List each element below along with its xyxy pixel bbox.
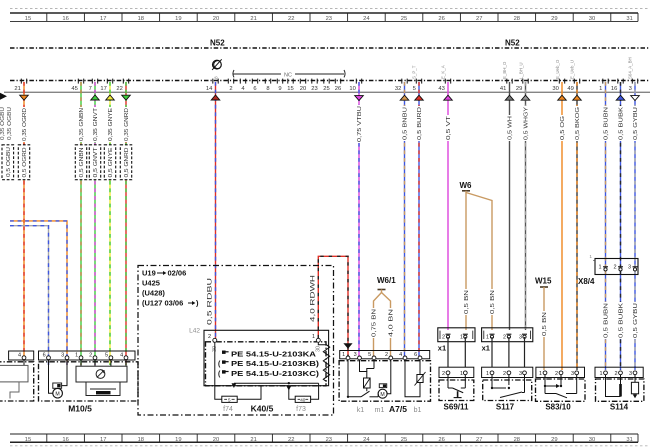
svg-text:1: 1: [539, 371, 542, 377]
svg-text:23: 23: [311, 86, 317, 92]
svg-text:14: 14: [206, 86, 213, 92]
svg-text:PE 54.15-U-2103KB): PE 54.15-U-2103KB): [231, 361, 319, 368]
svg-text:2: 2: [555, 371, 558, 377]
svg-text:M: M: [380, 392, 384, 398]
svg-text:L42: L42: [189, 328, 200, 335]
M10/5 internals: control module: [76, 360, 127, 396]
wire 0,5 BUBK pin16 to X8/4 pin2: [616, 82, 625, 267]
svg-text:2: 2: [208, 334, 211, 340]
switch S117: [482, 367, 533, 411]
tiny pin function labels: [412, 57, 633, 79]
svg-text:0,35 OGBU: 0,35 OGBU: [7, 107, 13, 140]
wire 0,5 GYBU X8/4 pin3 to S114 pin3: [632, 271, 639, 370]
svg-text:0,5 GNYE: 0,5 GNYE: [108, 147, 114, 177]
svg-text:31: 31: [626, 437, 632, 443]
svg-text:2: 2: [503, 334, 506, 340]
wire 0,75 VTBU pin10 to A7/5 pin3: [355, 82, 364, 356]
svg-text:K40/5: K40/5: [251, 404, 274, 414]
wire fuse f73 to pin1 branch: [311, 383, 319, 399]
svg-text:x1: x1: [438, 344, 446, 353]
svg-text:19: 19: [175, 437, 181, 443]
svg-text:0,5 GNVT: 0,5 GNVT: [93, 147, 99, 178]
relay coil zigzag: [318, 342, 329, 381]
wire 4,0 RDWH K40/5 pin1 to A7/5 pin1: [310, 256, 352, 356]
svg-text:17: 17: [100, 16, 106, 22]
label M10/5: [68, 404, 92, 414]
svg-text:1: 1: [598, 264, 601, 270]
label K40/5: [251, 404, 274, 414]
svg-text:17: 17: [100, 86, 106, 92]
connector X8/4: [578, 254, 638, 286]
option frame U19/U425/U428/U127: [138, 266, 334, 416]
fuse f73: [295, 396, 310, 413]
wire fuse f74 to relay box: [237, 386, 261, 400]
S69/11 link wires: [448, 337, 465, 367]
svg-text:0,35 GNVT: 0,35 GNVT: [93, 107, 99, 141]
svg-text:2: 2: [503, 371, 506, 377]
svg-text:21: 21: [14, 86, 20, 92]
svg-text:1: 1: [312, 334, 315, 340]
svg-text:27: 27: [476, 437, 482, 443]
svg-text:0,5 BKOG: 0,5 BKOG: [575, 107, 581, 140]
K40/5 pin 2: [208, 334, 217, 342]
svg-text:1: 1: [599, 86, 602, 92]
svg-text:32: 32: [395, 86, 401, 92]
svg-text:30: 30: [315, 346, 321, 352]
svg-text:15: 15: [287, 86, 293, 92]
svg-text:0,5 BN: 0,5 BN: [464, 290, 470, 314]
wire 0,5 BURD pin5 to A7/5 pin6: [415, 82, 424, 356]
wire 0,35 OGRD pin21 to M10/4 pin4: [18, 82, 29, 356]
phantom wire label 0,35 OGBU (cut): [0, 107, 13, 140]
svg-text:m1: m1: [375, 407, 385, 414]
svg-text:40: 40: [300, 398, 306, 403]
svg-text:W15: W15: [535, 277, 552, 286]
svg-text:6: 6: [414, 352, 417, 358]
svg-text:N52: N52: [210, 39, 225, 48]
svg-text:0,5 BUBK: 0,5 BUBK: [618, 107, 624, 140]
svg-text:8: 8: [214, 76, 220, 79]
svg-text:30: 30: [589, 437, 595, 443]
wire OGBU horizontal to M10/5 pin3: [10, 221, 67, 365]
NC pin numbers: [228, 79, 341, 92]
label N52 (left): [210, 39, 225, 48]
U19 text block: [142, 269, 199, 308]
svg-text:4: 4: [18, 353, 21, 359]
svg-text:17: 17: [100, 437, 106, 443]
svg-text:3: 3: [571, 371, 574, 377]
svg-text:0,35 GNRD: 0,35 GNRD: [124, 108, 130, 141]
svg-text:f73: f73: [296, 406, 306, 413]
svg-text:W6/1: W6/1: [377, 276, 396, 285]
svg-text:M: M: [55, 392, 59, 398]
svg-text:1: 1: [599, 371, 602, 377]
svg-text:L_BH_U: L_BH_U: [519, 62, 524, 79]
svg-text:1: 1: [486, 371, 489, 377]
svg-text:S64_A_BH: S64_A_BH: [628, 57, 633, 79]
svg-text:26: 26: [438, 437, 444, 443]
svg-text:24: 24: [363, 437, 370, 443]
fuse-relay box K40/5 housing: [189, 328, 328, 386]
svg-text:b1: b1: [414, 407, 422, 414]
svg-text:16: 16: [62, 437, 68, 443]
svg-text:0,5 BUBK: 0,5 BUBK: [618, 303, 624, 338]
svg-text:02/06: 02/06: [168, 269, 187, 278]
svg-text:U425: U425: [142, 279, 160, 288]
A7/5 internals: sensor b1: [405, 360, 426, 397]
NC (not connected) bracket: [233, 70, 345, 79]
svg-text:3: 3: [354, 352, 357, 358]
wire 0,5 BUBN pin1 to X8/4 pin1: [602, 82, 609, 267]
blower motor unit M10/5 connector: [39, 351, 136, 360]
svg-text:21: 21: [250, 16, 256, 22]
svg-text:(U127 03/06: (U127 03/06: [142, 299, 183, 308]
svg-text:5: 5: [413, 86, 416, 92]
wire 0,35 GNYE pin17 to M10/5 pin5: [104, 82, 115, 365]
svg-text:0,75 BN: 0,75 BN: [371, 309, 377, 337]
bottom ruler: [10, 434, 638, 443]
svg-text:16: 16: [62, 16, 68, 22]
left partial component connector: [9, 351, 34, 360]
svg-text:25: 25: [401, 437, 407, 443]
svg-text:E_Ueb_U: E_Ueb_U: [570, 60, 575, 79]
svg-text:24: 24: [363, 16, 370, 22]
svg-text:1: 1: [342, 352, 345, 358]
svg-text:f74: f74: [223, 406, 233, 413]
svg-text:1: 1: [589, 254, 592, 260]
svg-text:6: 6: [43, 353, 46, 359]
svg-text:0,35 GNBN: 0,35 GNBN: [79, 108, 85, 141]
svg-text:20: 20: [300, 86, 306, 92]
svg-text:25: 25: [323, 86, 329, 92]
svg-text:29: 29: [516, 86, 522, 92]
M10/5 internals: motor m: [49, 360, 68, 398]
svg-text:29: 29: [551, 437, 557, 443]
svg-text:21: 21: [250, 437, 256, 443]
wire 0,5 BKOG pin49 to S83/10 pin3: [573, 82, 582, 370]
faint page border top: [10, 8, 650, 10]
ground point W15: [535, 277, 552, 371]
svg-text:49: 49: [567, 86, 573, 92]
svg-text:0,35 GNYE: 0,35 GNYE: [108, 108, 114, 141]
svg-text:S69/11: S69/11: [444, 403, 469, 412]
svg-text:2: 2: [229, 86, 232, 92]
svg-text:19: 19: [175, 16, 181, 22]
svg-text:5: 5: [228, 398, 231, 403]
K40/5 pin 1: [312, 334, 320, 342]
svg-text:3: 3: [519, 371, 522, 377]
S117 link wires: [492, 337, 525, 367]
A7/5 labels: [357, 404, 422, 414]
svg-text:M10/5: M10/5: [68, 404, 92, 414]
svg-text:29: 29: [551, 16, 557, 22]
svg-text:3: 3: [519, 334, 522, 340]
svg-text:15: 15: [25, 16, 31, 22]
control unit N52 top boundary: [10, 47, 650, 49]
svg-text:0,5 WHGY: 0,5 WHGY: [523, 107, 529, 140]
svg-text:N52: N52: [505, 39, 520, 48]
svg-text:E_BH_O: E_BH_O: [502, 61, 507, 79]
svg-text:3: 3: [628, 264, 631, 270]
svg-text:A7/5: A7/5: [389, 404, 407, 414]
ground point W6/1: [370, 276, 396, 356]
svg-text:31: 31: [626, 16, 632, 22]
svg-text:0,5 GYBU: 0,5 GYBU: [633, 303, 639, 338]
svg-text:E_K_A: E_K_A: [441, 65, 446, 79]
wire 0,35 GNVT pin7 to M10/5 pin2: [89, 82, 100, 365]
A7/5 dashed box: [339, 361, 430, 402]
svg-text:15: 15: [25, 437, 31, 443]
connector x1 of S69/11: [438, 328, 475, 353]
svg-text:0,5 BN: 0,5 BN: [490, 290, 496, 314]
svg-text:5: 5: [105, 353, 108, 359]
svg-text:2: 2: [385, 352, 388, 358]
svg-text:22: 22: [116, 86, 122, 92]
phantom label box 0,5 OGBU (cut): [2, 145, 14, 180]
faint page border bottom: [10, 445, 650, 447]
svg-text:x1: x1: [482, 344, 490, 353]
svg-text:25: 25: [401, 16, 407, 22]
PE document references: [218, 351, 319, 379]
wire 0,5 RDBU pin14 to K40/5 pin2: [208, 82, 220, 338]
svg-text:7: 7: [89, 86, 92, 92]
wire 0,5 WHGY pin29 to S117 pin3: [521, 82, 530, 330]
svg-text:S_P_T: S_P_T: [412, 65, 417, 79]
svg-text:W6: W6: [460, 181, 473, 190]
pump unit A7/5 connector: [340, 351, 430, 360]
clock symbol in N52: [212, 59, 222, 70]
svg-text:4,0 BN: 4,0 BN: [388, 309, 394, 337]
svg-text:0,5 GYBU: 0,5 GYBU: [633, 107, 639, 140]
svg-text:5: 5: [368, 352, 371, 358]
left partial component internals: [0, 360, 28, 399]
terminal 30 labels: [212, 346, 322, 352]
wire 0,5 WH pin41 to S117 pin2: [505, 82, 514, 330]
svg-text:2: 2: [442, 334, 445, 340]
svg-text:0,5 BNBU: 0,5 BNBU: [402, 107, 408, 140]
svg-text:3: 3: [629, 371, 632, 377]
switch S83/10: [536, 367, 586, 411]
svg-text:k1: k1: [357, 407, 365, 414]
tiny pin label above pin 14: [214, 76, 220, 79]
svg-text:18: 18: [138, 16, 144, 22]
svg-text:28: 28: [514, 437, 520, 443]
svg-text:0,5 OG: 0,5 OG: [560, 116, 566, 140]
wire 0,5 BUBK X8/4 pin2 to S114 pin2: [617, 271, 624, 370]
svg-text:S114: S114: [610, 403, 629, 412]
svg-text:0,5 BURD: 0,5 BURD: [417, 107, 423, 140]
svg-text:PE 54.15-U-2103KC): PE 54.15-U-2103KC): [231, 371, 319, 378]
N52 pin stubs and numbers: [14, 79, 637, 92]
wire 0,35 GNRD pin22 to M10/5 pin4: [120, 82, 131, 365]
svg-text:0,5 BN: 0,5 BN: [542, 312, 548, 336]
wire 0,5 GYBU pin3 to X8/4 pin3: [631, 82, 640, 267]
resistor unit S114: [595, 367, 644, 411]
svg-text:3: 3: [629, 86, 632, 92]
A7/5 internals: relay k1: [347, 360, 370, 398]
wire GYBU horizontal to M10/5 pin6: [10, 226, 49, 365]
svg-text:U19: U19: [142, 269, 156, 278]
svg-text:2: 2: [89, 353, 92, 359]
wire 0,5 OG pin30 to S83/10 pin2: [558, 82, 567, 370]
svg-text:4: 4: [120, 353, 123, 359]
ground point W6: [460, 181, 496, 330]
svg-text:1: 1: [75, 353, 78, 359]
svg-text:0,5 BUBN: 0,5 BUBN: [603, 303, 609, 338]
relay internal bus line: [232, 382, 319, 390]
svg-text:41: 41: [500, 86, 506, 92]
wire 0,5 BNBU pin32 to A7/5 pin4: [400, 82, 409, 356]
svg-text:4: 4: [399, 352, 402, 358]
svg-text:6: 6: [253, 86, 256, 92]
wire 0,35 GNBN pin45 to M10/5 pin1: [75, 82, 86, 365]
connector x1 of S117: [482, 328, 533, 353]
svg-text:S83/10: S83/10: [545, 403, 571, 412]
svg-text:20: 20: [213, 16, 219, 22]
svg-text:0,5 OGBU: 0,5 OGBU: [6, 147, 12, 177]
top ruler: [10, 13, 638, 22]
svg-text:(U428): (U428): [142, 289, 165, 298]
svg-text:22: 22: [288, 437, 294, 443]
svg-text:E_Ueb_O: E_Ueb_O: [555, 59, 560, 79]
svg-text:20: 20: [213, 437, 219, 443]
svg-text:X8/4: X8/4: [578, 277, 595, 286]
N52 bottom boundary (pin row): [10, 80, 650, 82]
fuse f74: [222, 396, 237, 413]
svg-text:9: 9: [278, 86, 281, 92]
M10/5 dashed box: [39, 362, 139, 401]
wire 0,5 BUBN X8/4 pin1 to S114 pin1: [602, 271, 609, 370]
switch S69/11: [439, 367, 474, 411]
svg-text:PE 54.15-U-2103KA: PE 54.15-U-2103KA: [231, 351, 316, 358]
svg-text:NC: NC: [284, 73, 292, 79]
svg-text:43: 43: [438, 86, 444, 92]
svg-text:0,35 OGBU: 0,35 OGBU: [0, 107, 6, 140]
svg-text:23: 23: [326, 437, 332, 443]
wire relay to fuse f73: [289, 386, 295, 399]
svg-text:26: 26: [335, 86, 341, 92]
svg-text:0,35 OGRD: 0,35 OGRD: [22, 108, 28, 141]
svg-text:1: 1: [460, 334, 463, 340]
svg-text:2: 2: [614, 371, 617, 377]
svg-text:18: 18: [138, 437, 144, 443]
wire 0,5 VT pin43 to S69/11 pin2: [444, 82, 453, 330]
relay module dashed box: [206, 342, 327, 386]
A7/5 internals: motor m1: [367, 360, 391, 398]
svg-text:0,5 GNRD: 0,5 GNRD: [124, 147, 130, 177]
svg-text:26: 26: [438, 16, 444, 22]
svg-text:30: 30: [552, 86, 558, 92]
svg-text:27: 27: [476, 16, 482, 22]
svg-text:22: 22: [288, 16, 294, 22]
label N52 (right): [505, 39, 520, 48]
bus separator line: [4, 91, 650, 93]
svg-text:S117: S117: [496, 403, 515, 412]
left partial component dashed box: [0, 362, 34, 401]
svg-text:30: 30: [589, 16, 595, 22]
svg-text:0,5 GNBN: 0,5 GNBN: [79, 147, 85, 177]
page continuation arrow left edge: [0, 93, 7, 100]
svg-text:2: 2: [613, 264, 616, 270]
svg-text:45: 45: [71, 86, 77, 92]
svg-text:23: 23: [326, 16, 332, 22]
svg-text:28: 28: [514, 16, 520, 22]
svg-text:0,5 OGRD: 0,5 OGRD: [22, 147, 28, 177]
svg-text:0,75 VTBU: 0,75 VTBU: [357, 106, 363, 142]
svg-text:2: 2: [442, 371, 445, 377]
svg-text:1: 1: [486, 334, 489, 340]
svg-text:10: 10: [349, 86, 355, 92]
K40/5 internal wiring left (term 30 to fuse f74): [215, 342, 222, 399]
svg-text:0,5 VT: 0,5 VT: [446, 115, 452, 140]
svg-text:0,5 BUBN: 0,5 BUBN: [603, 107, 609, 140]
svg-text:0,5 WH: 0,5 WH: [507, 116, 513, 140]
svg-text:4,0 RDWH: 4,0 RDWH: [310, 275, 316, 322]
svg-text:0,5 RDBU: 0,5 RDBU: [208, 278, 214, 325]
svg-text:1: 1: [460, 371, 463, 377]
svg-text:8: 8: [266, 86, 269, 92]
svg-text:16: 16: [611, 86, 617, 92]
svg-text:3: 3: [61, 353, 64, 359]
